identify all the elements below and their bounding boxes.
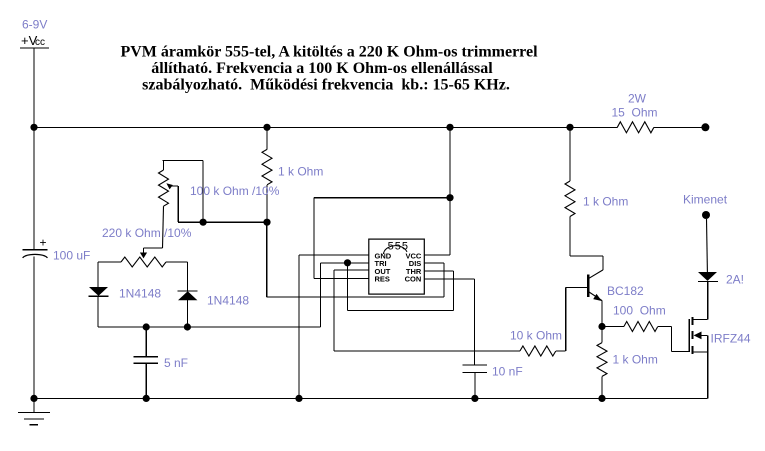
- trimmer 220 k Ohm /10%: [102, 226, 192, 267]
- svg-text:6-9V: 6-9V: [22, 18, 47, 32]
- wire THR pin: [424, 271, 453, 310]
- svg-text:1N4148: 1N4148: [119, 287, 161, 301]
- node E diode right: [184, 323, 191, 330]
- node ground-rail left: [30, 395, 37, 402]
- svg-text:220 k Ohm /10%: 220 k Ohm /10%: [102, 226, 192, 240]
- wire Vcc rail lower: [33, 256, 35, 398]
- wire 10k to base: [556, 287, 566, 351]
- wire collector: [570, 217, 603, 270]
- resistor 1 k Ohm emitter: [597, 327, 658, 399]
- node L top-rail/1k: [566, 124, 573, 131]
- svg-text:állítható. Frekvencia a 100 K: állítható. Frekvencia a 100 K Ohm-os ell…: [151, 60, 493, 77]
- transistor Q1 BC182: [566, 270, 644, 301]
- node N emitter-res/ground: [598, 395, 605, 402]
- svg-text:cc: cc: [35, 37, 45, 48]
- wire DIS pin: [424, 263, 444, 297]
- node D cap5nF: [143, 323, 150, 330]
- wire drain: [707, 281, 709, 319]
- node C R1/DIS: [263, 219, 270, 226]
- wire node B to node C: [203, 221, 267, 223]
- svg-text:Kimenet: Kimenet: [683, 193, 728, 207]
- svg-text:1 k Ohm: 1 k Ohm: [278, 165, 323, 179]
- terminal top right: [701, 123, 709, 131]
- wire TRI to THR link: [348, 263, 454, 311]
- svg-text:+: +: [40, 236, 47, 250]
- svg-text:RES: RES: [375, 275, 390, 284]
- svg-text:CON: CON: [405, 275, 422, 284]
- wire OUT pin: [334, 270, 520, 351]
- wire diode bottom bus: [98, 326, 321, 328]
- svg-text:1 k Ohm: 1 k Ohm: [583, 195, 628, 209]
- wire TRI pin: [321, 263, 369, 327]
- wire RES to Vcc link: [314, 197, 450, 199]
- resistor R 1 k Ohm left: [262, 127, 323, 222]
- svg-text:5 nF: 5 nF: [164, 356, 188, 370]
- wire trimmer left lead: [98, 262, 121, 287]
- svg-text:10 nF: 10 nF: [492, 365, 523, 379]
- wire 100 Ohm to gate: [658, 327, 689, 352]
- resistor 10 k Ohm: [510, 329, 562, 357]
- wire pot bottom lead: [144, 206, 164, 253]
- node B pot/wiper: [200, 219, 207, 226]
- resistor 15 Ohm 2W: [612, 92, 658, 133]
- svg-text:1 k Ohm: 1 k Ohm: [613, 353, 658, 367]
- svg-text:IRFZ44: IRFZ44: [711, 332, 751, 346]
- potentiometer P1 100 k Ohm /10%: [159, 160, 280, 222]
- svg-text:1N4148: 1N4148: [207, 294, 249, 308]
- power terminal +Vcc: [20, 33, 49, 48]
- title text: [120, 43, 538, 93]
- svg-text:15 Ohm: 15 Ohm: [612, 106, 658, 120]
- capacitor C1 100 uF: [23, 236, 91, 263]
- diode D2 1N4148 right: [178, 291, 250, 327]
- svg-text:10 k Ohm: 10 k Ohm: [510, 329, 562, 343]
- node H TRI junction: [344, 259, 351, 266]
- svg-text:2A!: 2A!: [726, 273, 744, 287]
- node K 10nF/ground: [471, 395, 478, 402]
- terminal Kimenet: [702, 211, 710, 219]
- ground: [18, 398, 50, 424]
- capacitor 5 nF: [133, 327, 188, 398]
- svg-text:BC182: BC182: [607, 284, 644, 298]
- capacitor 10 nF: [463, 365, 523, 399]
- wire Vcc top rail: [34, 126, 617, 128]
- svg-text:2W: 2W: [628, 92, 647, 106]
- wire RES pin: [314, 198, 369, 279]
- diode D1 1N4148 left: [89, 287, 162, 328]
- diode D3 2A!: [698, 272, 744, 287]
- svg-text:szabályozható. Működési frekv: szabályozható. Működési frekvencia kb.: …: [142, 77, 510, 94]
- wire Kimenet to diode: [706, 219, 709, 272]
- resistor 1 k Ohm collector: [565, 127, 628, 216]
- wire emitter: [601, 301, 603, 327]
- node M emitter: [598, 323, 605, 330]
- wire DIS under-chip bus: [267, 222, 444, 297]
- wire VCC pin: [424, 127, 450, 255]
- node F 5nF/ground: [143, 395, 150, 402]
- node Vcc-rail left: [30, 124, 37, 131]
- node A top-rail/R1: [263, 124, 270, 131]
- svg-text:100 Ohm: 100 Ohm: [613, 303, 666, 317]
- wire pot top to node: [202, 160, 204, 222]
- svg-text:PVM áramkör 555-tel, A kitölté: PVM áramkör 555-tel, A kitöltés a 220 K …: [120, 43, 538, 60]
- node I RES/VCC: [446, 194, 453, 201]
- wire ground rail: [34, 397, 708, 399]
- node G gnd-bus: [295, 395, 302, 402]
- wire trimmer right lead: [166, 262, 187, 291]
- svg-text:100 uF: 100 uF: [53, 249, 90, 263]
- wire to output terminal: [654, 126, 702, 128]
- wire CON pin: [424, 279, 474, 365]
- resistor 100 Ohm: [602, 303, 666, 331]
- node J top-rail/VCC: [446, 124, 453, 131]
- wire Vcc rail upper: [33, 48, 35, 249]
- wire GND pin: [299, 255, 369, 398]
- op-amp U1 555 IC body: [369, 239, 425, 294]
- transistor Q2 IRFZ44 mosfet: [689, 317, 751, 398]
